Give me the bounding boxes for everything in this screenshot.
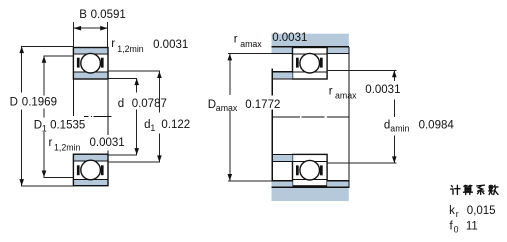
bearing top section (right drawing) — [293, 48, 328, 80]
svg-text:D: D — [34, 120, 42, 132]
svg-text:0.0031: 0.0031 — [153, 39, 188, 51]
svg-text:amin: amin — [390, 124, 409, 134]
svg-text:0: 0 — [454, 224, 459, 234]
svg-text:B: B — [79, 9, 87, 21]
svg-text:amax: amax — [240, 39, 262, 49]
svg-text:0.0787: 0.0787 — [132, 98, 167, 110]
svg-text:r: r — [111, 38, 115, 50]
svg-text:0.0984: 0.0984 — [419, 119, 455, 131]
svg-text:0.1969: 0.1969 — [22, 97, 57, 109]
right side face line — [107, 79, 109, 135]
ball (top, right drawing) — [300, 53, 320, 73]
svg-text:k: k — [449, 205, 455, 217]
dimension da min: line and arrows — [327, 70, 396, 163]
dimension D1: line and arrows — [43, 56, 73, 177]
Chinese title (hand-drawn glyphs) — [451, 185, 498, 194]
svg-text:0.122: 0.122 — [161, 119, 190, 131]
ball (bottom, right drawing) — [300, 160, 320, 180]
char shu — [489, 185, 498, 194]
axis centerline (right drawing) — [273, 116, 349, 118]
dimension B: extension lines — [74, 22, 108, 47]
dimension d: line and arrows — [108, 78, 137, 155]
svg-text:1: 1 — [150, 123, 155, 133]
svg-text:amax: amax — [335, 91, 357, 101]
char suan — [463, 185, 472, 194]
housing shoulder bottom-right — [327, 181, 349, 187]
cage bars (top, right drawing) — [296, 58, 323, 68]
housing bottom strip — [272, 187, 349, 201]
ball (top, left drawing) — [81, 53, 101, 73]
svg-text:1,2min: 1,2min — [117, 44, 144, 54]
dimension Da max: line and arrows — [228, 54, 272, 181]
svg-text:11: 11 — [466, 220, 478, 232]
shaft shoulder bottom — [272, 155, 293, 162]
housing top strip — [272, 34, 349, 47]
svg-text:amax: amax — [216, 103, 238, 113]
housing shoulder bottom-left — [272, 181, 293, 187]
svg-text:0.0591: 0.0591 — [91, 9, 126, 21]
dimension D: line and arrows — [21, 46, 73, 186]
svg-text:0.1772: 0.1772 — [245, 99, 280, 111]
svg-text:r: r — [329, 86, 333, 98]
left side face line — [72, 79, 74, 116]
svg-text:0.0031: 0.0031 — [90, 137, 125, 149]
centerline (left drawing) — [84, 116, 111, 118]
svg-text:d: d — [118, 98, 124, 110]
part right edge line — [348, 47, 350, 188]
svg-text:r: r — [456, 209, 459, 219]
svg-text:1,2min: 1,2min — [54, 143, 81, 153]
svg-text:r: r — [234, 33, 238, 45]
housing shoulder top-left — [272, 48, 293, 54]
housing shoulder top-right — [327, 48, 349, 54]
bearing ring bottom section (left drawing) — [73, 154, 108, 186]
bearing bottom section (right drawing) — [293, 154, 328, 186]
svg-text:0.0031: 0.0031 — [272, 32, 307, 44]
part left edge line — [271, 69, 273, 181]
dimension d1: line and arrows — [108, 71, 160, 162]
svg-text:D: D — [10, 97, 18, 109]
svg-text:0.1535: 0.1535 — [50, 120, 85, 132]
cage bars (bottom, right drawing) — [296, 165, 323, 175]
svg-text:r: r — [49, 137, 53, 149]
ball (bottom, left drawing) — [81, 160, 101, 180]
cage bars (top, left drawing) — [77, 58, 104, 68]
svg-text:0,015: 0,015 — [467, 205, 496, 217]
char xi — [477, 185, 485, 194]
dimension B: arrows — [74, 26, 81, 31]
char ji — [451, 185, 460, 194]
svg-text:1: 1 — [42, 124, 47, 134]
cage bars (bottom, left drawing) — [77, 165, 104, 175]
svg-text:0.0031: 0.0031 — [365, 84, 400, 96]
bearing outer/inner ring top section (left drawing) — [73, 48, 108, 80]
shaft shoulder top — [272, 72, 293, 79]
